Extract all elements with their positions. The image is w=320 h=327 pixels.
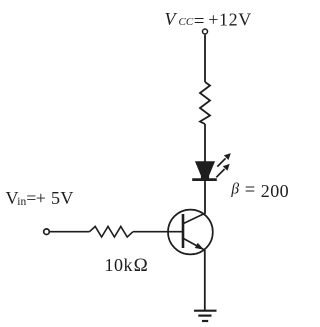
svg-text:=: = (194, 11, 205, 32)
node Vcc terminal (203, 29, 208, 34)
svg-text:=: = (245, 180, 255, 200)
svg-text:CC: CC (179, 16, 194, 28)
resistor RC (collector resistor) (200, 82, 210, 124)
label Vcc = +12V (165, 9, 252, 32)
wire emitter to ground (204, 250, 206, 310)
LED D1 (192, 153, 231, 180)
transistor Q1 (168, 210, 213, 255)
wire Vin to base resistor (50, 231, 90, 233)
svg-text:β: β (230, 181, 239, 198)
wire base resistor to transistor base (133, 231, 183, 233)
svg-text:200: 200 (261, 181, 289, 201)
ground (194, 311, 217, 321)
svg-text:Ω: Ω (134, 255, 148, 276)
svg-text:10k: 10k (105, 255, 134, 275)
label beta = 200 (230, 180, 289, 201)
svg-text:+12V: +12V (208, 10, 252, 30)
label 10k Ohm (105, 255, 148, 276)
label Vin = +5V (6, 188, 74, 208)
wire resistor to LED (204, 124, 206, 162)
wire LED to collector (204, 180, 206, 214)
resistor RB 10k (base resistor) (90, 226, 134, 237)
svg-text:in: in (17, 196, 26, 208)
wire Vcc to collector resistor (204, 35, 206, 82)
node Vin terminal (44, 229, 50, 235)
svg-text:+ 5V: + 5V (36, 188, 74, 208)
